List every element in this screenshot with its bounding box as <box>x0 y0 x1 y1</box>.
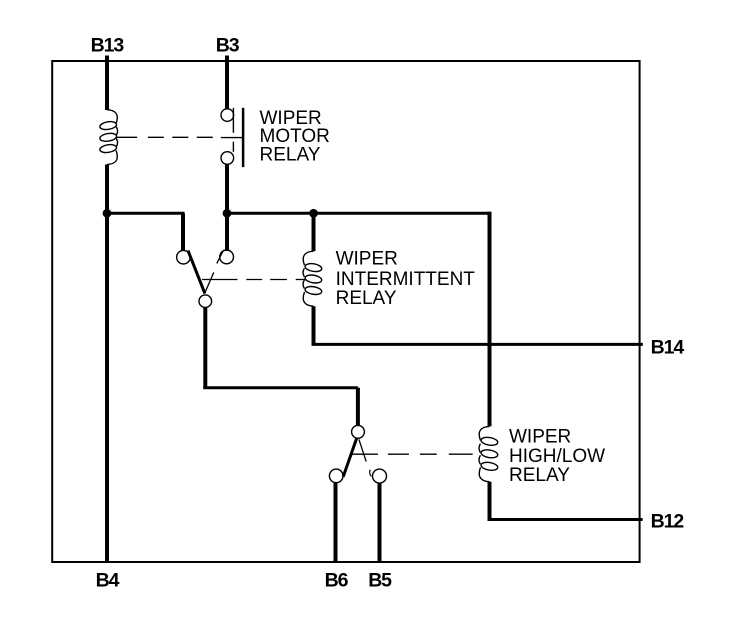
switch S1 thin throw line <box>205 272 214 292</box>
svg-text:RELAY: RELAY <box>260 145 321 166</box>
text WIPER MOTOR RELAY <box>260 108 330 165</box>
switch S1 alternate-throw stub <box>217 251 223 264</box>
svg-text:B6: B6 <box>325 570 349 592</box>
wire B6 <box>334 483 338 561</box>
svg-text:WIPER: WIPER <box>509 427 571 448</box>
text WIPER HIGH/LOW RELAY <box>509 427 605 487</box>
svg-text:B14: B14 <box>651 336 685 358</box>
coil L2 wiper intermittent relay <box>303 251 322 306</box>
text WIPER INTERMITTENT RELAY <box>336 249 476 310</box>
svg-text:B3: B3 <box>216 35 240 57</box>
coil L3 wiper high/low relay <box>479 426 498 481</box>
junction dot on B13 wire <box>103 209 112 218</box>
wire B3 middle <box>225 164 229 251</box>
switch S1 (intermittent) contacts <box>177 250 234 308</box>
wire drop to switch S1 left contact <box>181 213 185 250</box>
junction dot at intermittent coil feed <box>309 209 318 218</box>
svg-text:B12: B12 <box>651 510 685 532</box>
wire jog horizontal <box>203 386 358 389</box>
wire S1 pivot down <box>203 308 207 388</box>
wire B14 horizontal <box>312 343 643 346</box>
svg-text:WIPER: WIPER <box>336 249 398 270</box>
svg-text:RELAY: RELAY <box>509 465 570 486</box>
svg-text:INTERMITTENT: INTERMITTENT <box>336 269 476 290</box>
wire B3 top <box>225 56 229 110</box>
switch S1 arm <box>188 251 205 294</box>
wire bus left segment <box>105 212 185 215</box>
relay contact K1 (wiper motor relay) <box>221 108 242 164</box>
svg-text:B5: B5 <box>368 570 392 592</box>
wire high/low coil to B12 <box>488 482 492 520</box>
switch S2 thin throw line <box>359 439 366 461</box>
svg-text:HIGH/LOW: HIGH/LOW <box>509 446 605 467</box>
wire B13 top <box>105 56 109 111</box>
switch S2 arm <box>343 438 357 477</box>
connector box border <box>52 61 639 562</box>
dashed linkage K1-L1 <box>117 136 213 138</box>
dashed linkage S1-L2 <box>202 279 305 281</box>
wire intermittent coil feed <box>312 212 316 251</box>
junction dot on B3 wire <box>223 209 232 218</box>
wire B5 <box>378 483 382 561</box>
svg-text:B4: B4 <box>96 570 120 592</box>
wire right vertical to high/low coil <box>488 212 492 427</box>
wire intermittent coil to B14 <box>312 306 316 344</box>
coil L1 wiper motor relay (B13) <box>99 110 117 165</box>
wire B13/B4 vertical <box>105 165 109 562</box>
wire bus right segment <box>227 212 491 215</box>
svg-text:RELAY: RELAY <box>336 288 397 309</box>
dashed linkage S2-L3 <box>352 453 473 455</box>
switch S2 (high/low) contacts <box>329 425 386 483</box>
switch S2 alternate-throw stub <box>370 470 371 477</box>
contact bar K1 <box>242 108 245 167</box>
svg-text:B13: B13 <box>91 35 125 57</box>
wire B12 horizontal <box>488 518 643 521</box>
wire down to S2 pivot <box>356 388 360 426</box>
